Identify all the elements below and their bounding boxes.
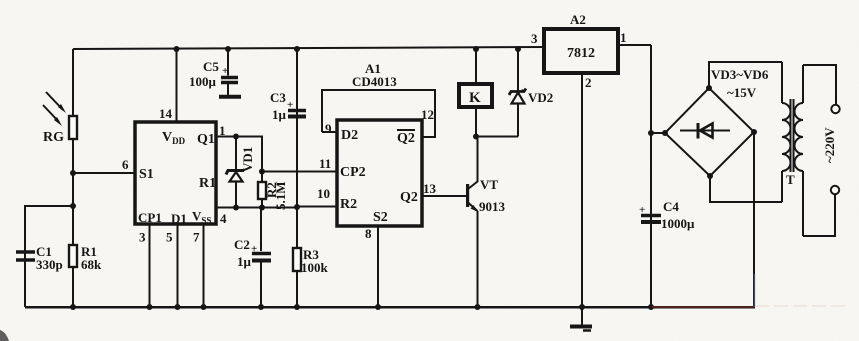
- svg-text:D2: D2: [341, 128, 358, 143]
- wire left vertical bus: [72, 49, 74, 307]
- svg-text:11: 11: [319, 156, 331, 171]
- node C3 / rail: [294, 46, 300, 52]
- node C1 branch: [70, 203, 76, 209]
- svg-text:1000μ: 1000μ: [661, 216, 695, 231]
- svg-text:13: 13: [423, 181, 437, 196]
- svg-text:Q1: Q1: [197, 132, 215, 147]
- svg-text:1: 1: [620, 30, 627, 45]
- node R2 top: [259, 169, 265, 175]
- wire top supply rail: [73, 47, 544, 49]
- terminal bottom: [831, 186, 839, 194]
- capacitor C3: [270, 90, 306, 122]
- pin 7: [193, 224, 204, 307]
- node emitter / rail: [475, 304, 481, 310]
- wire bridge right to rail: [753, 132, 755, 307]
- svg-text:~220V: ~220V: [822, 127, 837, 163]
- scan artifact corner smudge: [0, 330, 9, 341]
- diode VD2: [509, 49, 553, 137]
- svg-text:S1: S1: [139, 167, 154, 182]
- wire to pin 6 S1: [73, 172, 136, 174]
- svg-text:100k: 100k: [301, 260, 329, 275]
- wire AC top: [709, 62, 782, 88]
- node pin14 / rail: [174, 46, 180, 52]
- svg-text:10: 10: [317, 186, 330, 201]
- bridge rectifier VD3-VD6: [651, 67, 769, 176]
- svg-text:+: +: [287, 99, 293, 111]
- wire DC plus column: [650, 45, 652, 307]
- node bridge top: [706, 85, 712, 91]
- wire Q2bar to D2 feedback bracket: [322, 90, 435, 137]
- resistor R2: [258, 172, 288, 211]
- wire primary bottom to terminal: [803, 195, 835, 237]
- wire collector: [477, 137, 479, 183]
- wire bottom ground rail: [25, 306, 755, 309]
- svg-text:5: 5: [166, 230, 173, 245]
- svg-text:C5: C5: [203, 59, 219, 74]
- svg-text:1μ: 1μ: [272, 107, 287, 122]
- svg-text:C3: C3: [270, 90, 286, 105]
- node VD1 top: [233, 134, 239, 140]
- wire pin1 Q1 output: [216, 137, 262, 172]
- svg-text:+: +: [639, 204, 645, 216]
- IC A1 CD4013: [352, 61, 397, 89]
- node pin7 / rail: [201, 304, 207, 310]
- svg-text:T: T: [786, 172, 795, 187]
- wire C3 R3 column: [296, 49, 298, 307]
- svg-text:330p: 330p: [36, 257, 63, 272]
- node pin10 column: [294, 204, 300, 210]
- svg-text:CP1: CP1: [138, 210, 162, 225]
- node bridge left: [662, 130, 668, 136]
- svg-text:VD2: VD2: [528, 90, 553, 105]
- capacitor C2: [234, 208, 271, 308]
- node R3 / rail: [294, 304, 300, 310]
- wire K bottom to VD2: [476, 136, 518, 138]
- pin 5: [166, 224, 178, 307]
- photoresistor RG: [43, 92, 77, 145]
- svg-text:S2: S2: [373, 210, 388, 225]
- wire emitter: [477, 211, 479, 307]
- node bridge bottom: [707, 173, 713, 179]
- transformer T secondary: [782, 62, 791, 202]
- node VD2 / rail: [515, 46, 521, 52]
- svg-text:68k: 68k: [81, 257, 102, 272]
- svg-text:+: +: [222, 65, 228, 77]
- IC U1a CD4013 first flip-flop: [135, 122, 216, 224]
- wire C1 branch: [25, 206, 73, 307]
- svg-text:RG: RG: [43, 130, 64, 145]
- terminal top: [831, 105, 839, 113]
- diode VD1: [226, 137, 255, 208]
- transformer core: [791, 99, 794, 172]
- resistor R1: [69, 244, 102, 272]
- svg-text:7812: 7812: [567, 46, 595, 61]
- svg-text:R2: R2: [340, 197, 357, 212]
- node K / rail: [473, 46, 479, 52]
- node pin2 / rail: [579, 304, 585, 310]
- capacitor C5: [189, 49, 241, 97]
- svg-text:6: 6: [122, 157, 129, 172]
- svg-text:7: 7: [193, 230, 200, 245]
- svg-text:3: 3: [531, 31, 538, 46]
- wire CP2 feed: [262, 171, 337, 173]
- wire Q2 to base: [422, 195, 467, 197]
- node bridge left output: [648, 130, 654, 136]
- transformer T primary: [786, 65, 803, 236]
- pin 1: [618, 30, 651, 45]
- transistor VT 9013: [466, 177, 506, 214]
- relay K: [459, 49, 492, 137]
- svg-text:4: 4: [220, 211, 227, 226]
- pin 8: [365, 226, 378, 307]
- node pin3 / rail: [147, 304, 153, 310]
- svg-text:+: +: [251, 243, 257, 255]
- node bridge right: [751, 129, 757, 135]
- svg-text:VD1: VD1: [240, 147, 255, 172]
- wire pin 10 row: [297, 206, 337, 208]
- wire primary top to terminal: [803, 65, 836, 105]
- svg-text:100μ: 100μ: [189, 74, 217, 89]
- svg-text:CP2: CP2: [340, 165, 366, 180]
- svg-text:C4: C4: [663, 199, 679, 214]
- capacitor C4: [639, 199, 695, 231]
- pin 3: [139, 224, 150, 307]
- svg-text:A2: A2: [570, 12, 586, 27]
- node K / collector: [473, 134, 479, 140]
- ground: [570, 307, 592, 331]
- label Q2bar: [397, 130, 415, 146]
- node C2 / rail: [258, 304, 264, 310]
- node RG / S1 wire: [70, 170, 76, 176]
- pin 9: [322, 121, 337, 136]
- node R1 / rail: [70, 304, 76, 310]
- svg-text:D1: D1: [171, 211, 187, 226]
- wire VSS pin4 row: [216, 207, 297, 209]
- svg-text:VT: VT: [480, 177, 498, 192]
- pin 14: [159, 49, 177, 122]
- regulator A2 7812: [544, 12, 618, 73]
- svg-text:5.1M: 5.1M: [273, 181, 288, 210]
- svg-text:Q2: Q2: [400, 190, 418, 205]
- svg-text:1μ: 1μ: [237, 254, 252, 269]
- node pin8 / rail: [375, 304, 381, 310]
- capacitor C1: [16, 244, 63, 272]
- svg-text:~15V: ~15V: [727, 85, 757, 100]
- svg-text:R1: R1: [199, 176, 216, 191]
- svg-text:C2: C2: [234, 237, 250, 252]
- svg-text:14: 14: [159, 106, 173, 121]
- svg-text:CD4013: CD4013: [352, 74, 397, 89]
- svg-text:9013: 9013: [479, 199, 506, 214]
- node VD1 bottom: [233, 205, 239, 211]
- node R2 bottom: [259, 205, 265, 211]
- resistor R3: [293, 247, 329, 275]
- pin 2: [582, 71, 592, 307]
- svg-text:9: 9: [325, 121, 332, 136]
- svg-text:Q2: Q2: [397, 131, 415, 146]
- wire AC bottom: [710, 176, 782, 202]
- svg-text:2: 2: [585, 75, 592, 90]
- scan artifact red rail tint: [652, 306, 754, 308]
- svg-text:8: 8: [365, 226, 372, 241]
- svg-text:K: K: [469, 90, 481, 106]
- svg-text:3: 3: [139, 230, 146, 245]
- node pin5 / rail: [175, 304, 181, 310]
- svg-text:VD3~VD6: VD3~VD6: [711, 67, 769, 82]
- node C4 / rail: [648, 304, 654, 310]
- IC A1 box: [337, 120, 422, 226]
- node C5 / rail: [225, 46, 231, 52]
